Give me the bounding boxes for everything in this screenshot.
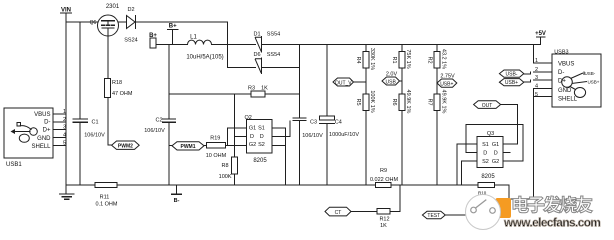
- svg-text:0.1 OHM: 0.1 OHM: [95, 202, 117, 208]
- svg-text:8205: 8205: [253, 158, 267, 164]
- svg-text:D+: D+: [558, 79, 566, 85]
- svg-text:VIN: VIN: [61, 8, 71, 14]
- svg-text:S1: S1: [258, 126, 265, 132]
- svg-text:47 OHM: 47 OHM: [112, 91, 133, 97]
- svg-text:D: D: [250, 134, 254, 140]
- svg-text:106/10V: 106/10V: [302, 133, 323, 139]
- svg-text:R7: R7: [427, 98, 433, 105]
- svg-text:R12: R12: [379, 217, 389, 223]
- svg-text:10uH/5A(105): 10uH/5A(105): [186, 55, 223, 61]
- svg-text:R4: R4: [355, 56, 361, 63]
- svg-text:5: 5: [535, 92, 538, 98]
- svg-text:3: 3: [63, 125, 66, 131]
- svg-text:C4: C4: [335, 119, 342, 125]
- svg-text:USB+: USB+: [588, 80, 600, 85]
- svg-text:1: 1: [535, 58, 538, 64]
- svg-text:CT: CT: [335, 210, 342, 216]
- svg-text:C3: C3: [310, 119, 317, 125]
- svg-text:106/10V: 106/10V: [144, 128, 165, 134]
- svg-text:R11: R11: [100, 195, 110, 201]
- svg-text:OUT_V: OUT_V: [335, 80, 352, 86]
- svg-text:Q6: Q6: [90, 20, 97, 26]
- svg-text:D: D: [494, 150, 498, 156]
- svg-text:R2: R2: [427, 56, 433, 63]
- svg-text:PWM2: PWM2: [118, 144, 133, 150]
- svg-text:USB+: USB+: [505, 80, 518, 86]
- svg-text:TEST: TEST: [427, 213, 440, 219]
- svg-text:GND: GND: [558, 88, 572, 94]
- svg-text:G1: G1: [492, 142, 499, 148]
- svg-text:49.9K 1%: 49.9K 1%: [440, 90, 446, 114]
- svg-text:10 OHM: 10 OHM: [206, 153, 227, 159]
- svg-text:D: D: [260, 134, 264, 140]
- svg-text:0.022 OHM: 0.022 OHM: [370, 177, 399, 183]
- svg-text:B-: B-: [174, 198, 180, 204]
- svg-text:D1: D1: [253, 31, 260, 37]
- svg-text:S1: S1: [482, 142, 489, 148]
- svg-text:330K 1%: 330K 1%: [369, 48, 375, 70]
- svg-text:USB: USB: [386, 79, 397, 85]
- svg-text:C1: C1: [92, 120, 99, 126]
- svg-text:8205: 8205: [481, 174, 495, 180]
- svg-text:OUT: OUT: [482, 103, 493, 109]
- svg-text:100K 1%: 100K 1%: [369, 90, 375, 112]
- svg-text:4: 4: [535, 84, 538, 90]
- svg-text:B+: B+: [169, 24, 177, 30]
- svg-text:75K 1%: 75K 1%: [405, 49, 411, 68]
- svg-text:S2: S2: [258, 142, 265, 148]
- svg-text:Q3: Q3: [487, 131, 494, 137]
- svg-text:1K: 1K: [380, 223, 387, 229]
- svg-text:C2: C2: [155, 117, 162, 123]
- svg-text:D-: D-: [44, 120, 50, 126]
- svg-text:49.9K 1%: 49.9K 1%: [405, 90, 411, 114]
- svg-text:GND: GND: [37, 136, 51, 142]
- svg-text:USB1: USB1: [6, 162, 22, 168]
- svg-text:USB-: USB-: [585, 71, 596, 76]
- svg-text:2: 2: [535, 67, 538, 73]
- svg-text:R5: R5: [355, 98, 361, 105]
- svg-text:SS54: SS54: [267, 52, 280, 58]
- svg-text:B+: B+: [149, 33, 157, 39]
- svg-text:R9: R9: [380, 168, 387, 174]
- svg-text:D2: D2: [127, 7, 134, 13]
- svg-text:S2: S2: [482, 159, 489, 165]
- svg-text:SHELL: SHELL: [558, 96, 578, 102]
- svg-text:USB3: USB3: [554, 50, 568, 56]
- svg-text:D: D: [483, 150, 487, 156]
- svg-text:1K: 1K: [261, 86, 268, 92]
- svg-text:R8: R8: [221, 163, 228, 169]
- svg-text:R6: R6: [391, 98, 397, 105]
- svg-text:1: 1: [63, 109, 66, 115]
- svg-text:1000uF/10V: 1000uF/10V: [329, 132, 359, 138]
- svg-text:VBUS: VBUS: [34, 112, 50, 118]
- svg-text:5: 5: [63, 141, 66, 147]
- svg-text:R1: R1: [391, 56, 397, 63]
- svg-text:2.0V: 2.0V: [386, 71, 398, 77]
- svg-text:106/10V: 106/10V: [84, 133, 105, 139]
- svg-text:SS24: SS24: [124, 38, 137, 44]
- svg-text:www.elecfans.com: www.elecfans.com: [503, 216, 600, 230]
- svg-text:R3: R3: [248, 86, 255, 92]
- svg-text:D6: D6: [253, 52, 260, 58]
- svg-text:R19: R19: [210, 136, 220, 142]
- svg-text:SHELL: SHELL: [31, 144, 51, 150]
- svg-text:USB+: USB+: [440, 81, 453, 87]
- svg-text:G2: G2: [492, 159, 499, 165]
- svg-text:D-: D-: [558, 70, 564, 76]
- svg-text:2301: 2301: [106, 4, 120, 10]
- svg-text:PWM1: PWM1: [181, 144, 196, 150]
- svg-text:R18: R18: [112, 80, 122, 86]
- svg-text:G2: G2: [249, 142, 256, 148]
- svg-text:L1: L1: [190, 35, 197, 41]
- svg-text:VBUS: VBUS: [558, 62, 574, 68]
- svg-text:D+: D+: [43, 127, 51, 133]
- svg-text:Q2: Q2: [245, 115, 252, 121]
- svg-text:3: 3: [535, 75, 538, 81]
- svg-text:SS54: SS54: [267, 31, 280, 37]
- svg-text:G1: G1: [249, 126, 256, 132]
- svg-text:+5V: +5V: [535, 31, 546, 37]
- svg-text:2.75V: 2.75V: [440, 73, 455, 79]
- svg-text:4: 4: [63, 133, 66, 139]
- svg-text:USB-: USB-: [506, 72, 518, 78]
- svg-text:43.2 1%: 43.2 1%: [440, 49, 446, 69]
- svg-text:2: 2: [63, 117, 66, 123]
- svg-text:100K: 100K: [219, 174, 232, 180]
